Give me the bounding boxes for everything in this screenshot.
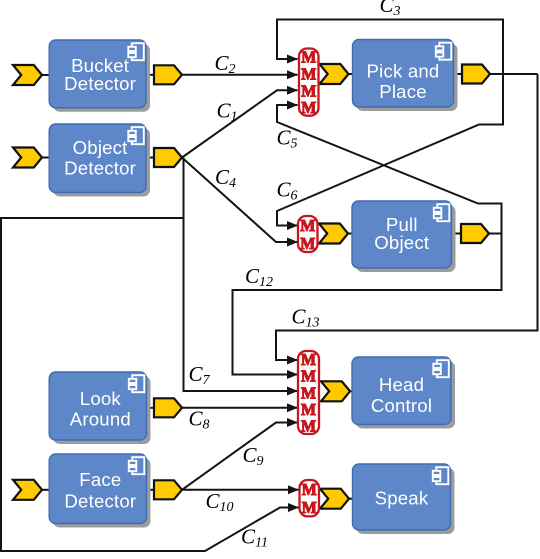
component Head Control: body: [352, 357, 451, 425]
input port arrow into Speak: [320, 489, 349, 509]
svg-text:Object: Object: [73, 137, 129, 158]
input port arrow into Bucket Detector: [13, 65, 42, 85]
multiplex stack C (Head Control inputs) (5 M): [298, 350, 319, 435]
component Bucket Detector: body: [49, 40, 146, 108]
component Face Detector: body: [49, 454, 146, 524]
svg-text:Look: Look: [80, 388, 122, 409]
wire Bucket input stub: [42, 74, 49, 76]
multiplex stack D (Speak inputs) (2 M): [300, 480, 320, 517]
multiplex stack B (Pull Object inputs) (2 M): [298, 216, 318, 253]
wire Face output stub: [147, 489, 155, 491]
svg-text:M: M: [301, 417, 316, 436]
wire C8 (Look Around out to Head mux pin4): [182, 407, 298, 409]
svg-text:Control: Control: [371, 395, 432, 416]
wire C3 (Pick and Place out, feedback to mux A pin1): [277, 20, 503, 75]
wire Pull input stub: [347, 233, 353, 235]
component Look Around: body: [49, 372, 146, 440]
output port arrow Face Detector: [154, 480, 182, 499]
component Object Detector: shadow: [53, 128, 150, 197]
wire C13 (Pick and Place out to Head mux pin1): [276, 74, 538, 360]
svg-text:M: M: [300, 216, 315, 235]
component Look Around: shadow: [53, 376, 150, 444]
wire C12 (Pull Object out to Head mux pin2): [233, 234, 502, 375]
output port arrow Look Around: [154, 398, 182, 417]
svg-text:M: M: [302, 480, 317, 499]
output port arrow Pick and Place: [462, 65, 490, 84]
input port arrow into Pick and Place: [320, 64, 349, 84]
component Pull Object: shadow: [356, 205, 456, 272]
wire Pull output stub: [452, 233, 462, 235]
svg-text:Head: Head: [379, 374, 424, 395]
component Pull Object: body: [352, 201, 452, 268]
wire Pick output stub: [454, 73, 463, 75]
wire C10 (Face Detector out to Speak mux pin1): [182, 489, 299, 491]
wire Speak input stub: [348, 498, 354, 500]
multiplex stack A (Pick and Place inputs) (4 M): [299, 48, 319, 117]
svg-text:M: M: [300, 234, 315, 253]
output port arrow Pull Object: [461, 224, 489, 243]
wire C4 (Object Detector out to Pull mux pin2): [182, 158, 298, 243]
component Face Detector: shadow: [53, 458, 150, 528]
wire C1 (Object Detector out to mux A pin3): [182, 90, 298, 157]
wire Object input stub: [42, 157, 49, 159]
component icon (Head Control): [433, 360, 449, 377]
component Head Control: shadow: [356, 361, 455, 429]
component icon (Object Detector): [128, 127, 144, 144]
wire Pick and Place output line: [490, 73, 538, 75]
svg-text:M: M: [301, 98, 316, 117]
component Speak: shadow: [357, 468, 455, 534]
output port arrow Bucket Detector: [154, 65, 182, 84]
svg-text:Around: Around: [70, 409, 131, 430]
component Pick and Place: shadow: [357, 44, 458, 112]
wire C5 (Pull Object out, feedback to mux A pin4): [277, 105, 502, 234]
wire C9 (Face Detector out to Head mux pin5): [182, 423, 298, 490]
component icon (Pull Object): [434, 204, 450, 221]
component Speak: body: [353, 464, 451, 530]
wire C6 (Pick and Place out to Pull mux pin1): [277, 74, 503, 226]
component Pick and Place: body: [353, 40, 454, 108]
svg-text:Place: Place: [379, 81, 427, 102]
component Object Detector: body: [49, 124, 146, 193]
wire Pick input stub: [348, 73, 353, 75]
input port arrow into Face Detector: [13, 480, 42, 500]
output port arrow Object Detector: [154, 148, 182, 167]
wire Object output stub: [146, 157, 154, 159]
wire Look Around output stub: [147, 407, 155, 409]
input port arrow into Object Detector: [13, 148, 42, 168]
wire Bucket output stub: [146, 74, 154, 76]
svg-text:Face: Face: [79, 469, 121, 490]
svg-text:Detector: Detector: [64, 73, 136, 94]
svg-text:Detector: Detector: [64, 157, 136, 178]
svg-text:M: M: [302, 498, 317, 517]
svg-text:Detector: Detector: [64, 490, 136, 511]
wire Face input stub: [42, 489, 49, 491]
component icon (Speak): [433, 467, 449, 484]
component Bucket Detector: shadow: [53, 44, 150, 112]
component icon (Face Detector): [129, 457, 145, 474]
wire C2 (Bucket Detector out to mux A pin2): [182, 74, 298, 76]
component icon (Pick and Place): [436, 43, 452, 60]
svg-text:Speak: Speak: [375, 487, 429, 508]
component icon (Look Around): [129, 375, 145, 392]
svg-text:Pick and: Pick and: [367, 60, 440, 81]
input port arrow into Pull Object: [319, 224, 348, 244]
svg-text:Object: Object: [374, 232, 430, 253]
input port arrow into Head Control: [321, 381, 350, 401]
component icon (Bucket Detector): [128, 43, 144, 60]
wire C11 (Object Detector out to Speak mux pin2): [1, 218, 299, 551]
wire Head input stub: [348, 390, 352, 392]
wire C7 (Object Detector out to Head mux pin3): [184, 158, 298, 392]
